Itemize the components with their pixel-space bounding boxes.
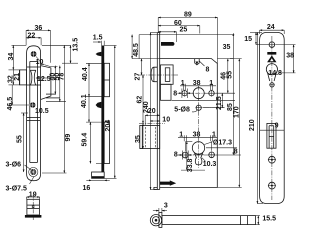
svg-text:24: 24 [267,24,275,31]
latch bolt head [151,67,157,82]
dim 38 [293,45,295,73]
dim 50 line [59,66,61,102]
top screw hole [269,42,275,48]
strike plate inner channel right line [36,62,38,163]
svg-text:38: 38 [193,80,201,87]
left dim col 27 [141,59,143,75]
svg-text:25: 25 [180,26,188,33]
dim 210 [256,32,258,203]
curved latch tab in window [30,70,36,85]
dim 55 line [23,113,25,172]
dim 34 line [12,45,14,70]
screw head middle [96,102,102,108]
latch window bottom [27,84,41,86]
dim 13.5 line [62,45,78,63]
latch in plate window (black striped) [267,52,276,62]
hole row2 left [182,152,188,158]
svg-text:204: 204 [105,120,112,132]
svg-text:20: 20 [148,108,156,115]
screw hole top (black) [31,51,37,57]
dim 8 hole row1 [181,89,183,99]
faceplate outline [260,32,285,203]
dim 60 [158,25,200,27]
svg-text:1: 1 [212,131,216,138]
cylinder cutout taper [268,73,277,81]
deadbolt head [140,125,160,148]
svg-text:38: 38 [286,53,294,60]
svg-text:13.5: 13.5 [73,38,80,52]
centerline 5-Ø8 [196,107,225,109]
strike plate inner channel left line [29,62,31,163]
faceplate bottom view [159,213,162,228]
cylinder small circle [270,83,274,87]
svg-text:40.1: 40.1 [81,94,88,108]
faceplate foot view3 [154,187,157,189]
svg-text:36: 36 [35,25,43,32]
latch window top [27,66,41,68]
channel top line [30,61,38,63]
svg-text:48.5: 48.5 [133,43,140,57]
left dim col 48.5 [131,35,133,59]
svg-text:89: 89 [184,12,192,19]
bottom view flange (dark) [25,215,42,218]
leader 3-Ø7.5 [30,177,35,185]
hole row1 left [182,91,187,96]
dim 36 line [9,30,71,173]
centerline latch axis [140,74,178,76]
screw hole bottom (black) [30,169,36,175]
notch leader 8 [199,61,204,66]
svg-text:5-Ø8: 5-Ø8 [174,107,190,114]
svg-text:1: 1 [179,131,183,138]
dim 10 [150,120,160,122]
left dim col 240 [150,33,152,190]
right dim col x=233 (55 / 85) [232,33,234,155]
svg-text:9: 9 [275,123,279,130]
right dim col x=222.3 (21.5) [221,93,223,108]
leader Ø17.3 [204,142,212,145]
svg-text:27: 27 [135,73,142,81]
strike plate outline [27,46,41,181]
svg-text:1.5: 1.5 [93,35,103,42]
svg-text:3: 3 [164,203,168,210]
centerline deadbolt [139,122,165,124]
centerline hole row 1 [179,92,217,94]
screw hole mid [269,156,276,163]
svg-text:16: 16 [83,185,91,192]
dim 89 [132,18,242,190]
svg-text:55: 55 [226,71,233,79]
svg-text:1: 1 [209,80,213,87]
centerline bottom view [32,195,34,221]
svg-text:99: 99 [65,134,72,142]
svg-text:10: 10 [36,59,44,66]
deadbolt slot outer [267,123,276,148]
svg-text:35: 35 [135,135,142,143]
dim 25 [158,31,176,33]
dim 40.4 [88,63,90,96]
svg-text:21.5: 21.5 [216,96,223,110]
screw hole middle (black) [30,102,35,107]
dim 15.5 [255,215,260,217]
svg-text:38: 38 [193,131,201,138]
svg-text:59.4: 59.4 [82,133,89,147]
top notch [195,59,200,65]
dim 59.4 [89,122,91,163]
centerline hole row 2 [179,154,217,156]
svg-text:170: 170 [233,106,240,118]
svg-text:46.5: 46.5 [7,97,14,111]
dim 78 and 99 column [63,45,65,173]
dim 40.1 [88,97,90,122]
dim 32 line [12,70,14,85]
svg-text:8: 8 [206,66,210,73]
case outline [160,59,218,188]
svg-text:55: 55 [17,135,24,143]
centerline view4 [271,36,273,200]
arrows on col 228/233 at mid [172,99,218,101]
leader 10.3 [202,158,206,162]
cross line at slot [260,129,285,131]
follower big hole [193,88,204,99]
dim 16 [92,179,105,181]
dim 8 hole row2 [181,151,183,160]
svg-text:19: 19 [29,191,37,198]
svg-text:33.8: 33.8 [187,158,194,172]
dim 1 38 1 row1 [178,84,217,98]
strike lip box (left tab) [20,70,27,85]
hole row2 right [209,152,215,158]
svg-text:15.5: 15.5 [262,216,276,223]
svg-text:Ø17.3: Ø17.3 [213,140,232,147]
svg-text:34: 34 [8,53,15,61]
5-Ø8 hole [196,105,201,110]
dim 3 [153,208,260,225]
svg-text:14.8: 14.8 [268,70,282,77]
faceplate foot [92,172,105,178]
right ext lines [217,58,241,60]
dim 15 [255,32,257,44]
dim 40 line [55,66,60,102]
leader 10 [36,57,58,67]
svg-text:22: 22 [28,33,36,40]
bottom fixing screw (black) [160,180,176,185]
dim 8 right [234,148,236,155]
case bar bottom view [162,216,256,225]
centerline cylinder vertical [198,86,200,169]
svg-text:8: 8 [174,152,178,159]
left dim col 35 deadbolt [142,123,144,148]
svg-text:10.5: 10.5 [35,108,49,115]
cylinder hole (euro profile) [192,142,204,154]
leader 3-Ø6 [25,165,32,170]
dim 22 line [26,37,41,39]
dim 1 38 1 row2 [178,135,217,170]
dim 38.8 [186,142,188,171]
knob circles [150,215,161,226]
faceplate bar (edge view) [101,46,104,173]
dim 12.5 [36,77,48,79]
dim 1.5 [86,41,117,181]
box B1 behind plate [104,63,109,96]
svg-text:8: 8 [234,149,238,156]
dim 204 [114,46,116,179]
svg-text:10.3: 10.3 [203,161,217,168]
svg-text:3-Ø6: 3-Ø6 [6,162,22,169]
latch follower cage [161,65,174,84]
faceplate front (double line) [156,33,158,190]
screw hole low [269,182,276,189]
dim 24 [250,30,296,203]
bottom view of strike box [27,199,40,215]
svg-text:210: 210 [249,119,256,131]
screw head top [96,52,102,56]
svg-text:40.4: 40.4 [82,67,89,81]
svg-text:8: 8 [173,90,177,97]
channel bottom line [30,162,38,164]
top fixing screw (black) [161,42,175,46]
svg-text:78: 78 [59,73,66,81]
svg-text:15: 15 [244,36,252,43]
dim 21 line [18,70,20,85]
cylinder cutout circle [266,64,277,75]
dim 46.5 line [11,85,13,105]
hole row1 right [209,91,214,96]
svg-text:21: 21 [14,73,21,81]
ext line plate top [12,44,27,46]
left dim col 62 [142,75,144,123]
svg-text:1: 1 [181,80,185,87]
box B2 behind plate [104,122,109,163]
right dim col x=228 (35 / 46) [227,59,229,94]
dust box profile (view1 right) [41,66,51,100]
right ext line y=31.5 [139,34,234,36]
dim 20 [145,115,160,125]
right dim col x=239.3 (170) [238,59,240,188]
deadbolt slot inner [268,126,270,149]
svg-text:10: 10 [162,117,170,124]
svg-text:35: 35 [223,44,231,51]
svg-text:3-Ø7.5: 3-Ø7.5 [6,186,28,193]
dim 19 [27,197,40,199]
lower bent tab lines [27,117,40,119]
